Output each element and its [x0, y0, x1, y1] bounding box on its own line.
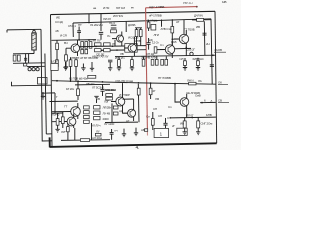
- transistor VT6: [123, 106, 136, 121]
- svg-text:СП: СП: [158, 114, 162, 118]
- second mid wire y84.6: [75, 83, 110, 86]
- stacked rect row 2b: [85, 49, 88, 53]
- resistor above bus: [88, 75, 96, 78]
- connector circle on wire: [190, 52, 193, 55]
- cap C15 leads: [102, 85, 104, 97]
- cap C4 lead down: [100, 34, 102, 40]
- svg-text:АЛ 4Ом: АЛ 4Ом: [92, 136, 102, 140]
- row resistor Rb: [69, 60, 72, 67]
- horizontal resistor bottom: [80, 139, 89, 142]
- resistor R23: [149, 88, 152, 95]
- inner IF box right edge: [210, 19, 213, 62]
- output stack winding 4: [84, 120, 90, 123]
- R8 bottom lead: [136, 37, 138, 46]
- ground left bottom: [55, 125, 59, 132]
- junction T3-T4: [172, 38, 174, 40]
- speaker line left: [12, 82, 52, 86]
- svg-text:ЛА: ЛА: [198, 79, 202, 83]
- contour box P1: [111, 30, 117, 33]
- red box cluster box: [151, 24, 156, 30]
- box inner small rect a: [23, 63, 26, 66]
- wire T8 emitter to bottom: [74, 128, 76, 140]
- svg-text:ЛУ 1200: ЛУ 1200: [104, 122, 115, 126]
- stacked rect row 2a: [81, 49, 84, 53]
- small box left border: [38, 78, 48, 85]
- output wire right: [170, 116, 216, 119]
- output stack winding 1: [84, 106, 90, 109]
- svg-text:2Н: 2Н: [206, 42, 209, 46]
- transformer box col2 lower: [104, 49, 111, 52]
- right long vertical wire: [203, 21, 206, 55]
- row resistor Rg: [151, 59, 154, 65]
- antenna input wire: [7, 28, 41, 31]
- ground C18: [163, 129, 167, 133]
- bus junction a: [77, 80, 79, 82]
- svg-text:С3 4Д: С3 4Д: [55, 20, 63, 24]
- svg-text:ЛН N: ЛН N: [187, 78, 193, 82]
- svg-text:ЛГ 5СЗ-Л: ЛГ 5СЗ-Л: [92, 85, 104, 89]
- svg-text:АПВ: АПВ: [135, 39, 141, 43]
- row cap c: [108, 60, 112, 66]
- svg-text:ЛГИ: ЛГИ: [154, 33, 159, 37]
- svg-text:ДЧЛ IN: ДЧЛ IN: [194, 14, 203, 18]
- input resistor Ra: [13, 55, 16, 61]
- svg-text:АГ: АГ: [126, 119, 130, 123]
- right margin text 2: [218, 81, 228, 85]
- svg-text:2Н ЛЦЦ: 2Н ЛЦЦ: [147, 18, 158, 22]
- resistor R5: [85, 42, 88, 49]
- junction dots W3b: [116, 49, 118, 51]
- svg-text:П1,4: П1,4: [109, 21, 115, 25]
- right small rect b: [113, 112, 118, 115]
- left exit wire mid: [42, 92, 55, 94]
- svg-text:АЛ ЛУч: АЛ ЛУч: [91, 124, 101, 128]
- lead Rb bus: [70, 66, 72, 81]
- trimmer row wire: [27, 65, 45, 67]
- main unit box border right: [215, 11, 217, 143]
- svg-text:4.: 4.: [136, 145, 140, 150]
- R23 leads: [150, 83, 152, 99]
- transistor VT4: [174, 30, 189, 47]
- small caps pair left: [106, 94, 113, 97]
- inner IF box top line: [73, 19, 211, 23]
- svg-text:ЛИ 2Л: ЛИ 2Л: [103, 17, 111, 21]
- svg-text:ИЕ: ИЕ: [56, 16, 60, 20]
- resistor R8: [135, 30, 138, 37]
- row resistor Rj: [165, 59, 168, 65]
- transistor VT2b: [124, 37, 137, 57]
- resistor R9: [139, 30, 142, 37]
- cap C18 leads: [165, 118, 167, 129]
- T6 collector wire: [133, 99, 135, 106]
- ground T1 emitter: [64, 61, 68, 70]
- lead Rc bus: [75, 66, 77, 81]
- svg-text:ЬТ 20х: ЬТ 20х: [66, 87, 75, 91]
- vt4 collector wire: [183, 20, 185, 35]
- contact rect row3: [94, 116, 100, 119]
- vertical from top border: [88, 14, 90, 23]
- R9 bottom lead: [140, 37, 142, 46]
- wire into VT5: [105, 89, 116, 91]
- horizontal resistor on right bus: [189, 82, 196, 85]
- wire component feed row: [115, 55, 216, 56]
- vertical wire x138: [137, 84, 140, 122]
- svg-text:ИЛ: ИЛ: [180, 57, 184, 61]
- svg-text:12 Ог: 12 Ог: [152, 41, 159, 45]
- wire y102 to T7 collector: [49, 100, 77, 102]
- wire T2 row lower: [96, 49, 146, 52]
- svg-text:ДО6Б: ДО6Б: [128, 23, 135, 27]
- cap C8: [147, 43, 151, 45]
- right small rect a: [113, 106, 118, 109]
- output stack winding 2: [84, 111, 90, 114]
- cap C18: [163, 123, 167, 125]
- vertical x55 down: [54, 93, 56, 113]
- svg-text:ОиВ: ОиВ: [195, 94, 201, 98]
- left small box on border: [51, 63, 58, 70]
- row resistor Ra: [56, 60, 59, 67]
- label box 1: [154, 128, 168, 137]
- small rect pair mid: [106, 97, 113, 100]
- shield box VT2b: [125, 44, 137, 53]
- svg-text:ЛУ 4В: ЛУ 4В: [103, 111, 111, 115]
- resistor R4: [81, 42, 84, 49]
- cap C2 plates: [24, 58, 27, 60]
- wire stack rail down: [91, 123, 93, 140]
- red box cluster lead: [148, 20, 150, 31]
- bottom comp a lead: [67, 124, 69, 141]
- svg-text:ГТ: ГТ: [64, 105, 67, 109]
- junction output wire: [191, 117, 193, 119]
- cap C3 leads: [78, 27, 80, 40]
- svg-text:ЛУ: ЛУ: [112, 42, 116, 46]
- row resistor Rf: [142, 59, 145, 66]
- second down wire: [45, 54, 46, 135]
- bus junction e: [56, 80, 58, 82]
- svg-text:АТ: АТ: [176, 20, 180, 24]
- trimmer circle c: [36, 68, 39, 71]
- row resistor Ri: [161, 59, 164, 65]
- svg-text:Сп: Сп: [168, 105, 172, 109]
- red line lower fade: [146, 130, 148, 136]
- junction T4 emitter: [186, 47, 188, 49]
- svg-text:ЫВ: ЫВ: [222, 0, 226, 4]
- svg-text:РБГ-1Н: РБГ-1Н: [183, 1, 192, 5]
- svg-text:ЛМ: ЛМ: [155, 97, 160, 101]
- wire lower mid: [105, 121, 138, 123]
- wire T2 collector up: [125, 21, 127, 32]
- power bus left: [52, 81, 140, 83]
- svg-text:ЬПВ: ЬПВ: [206, 113, 212, 117]
- ground Rk: [183, 65, 187, 70]
- wire top to T1 stage: [52, 39, 97, 42]
- svg-text:СВ: СВ: [218, 99, 222, 103]
- svg-text:СП: СП: [153, 107, 157, 111]
- resistor R6: [89, 42, 92, 49]
- svg-text:ЮТ 1М: ЮТ 1М: [116, 6, 125, 10]
- row ground a: [63, 62, 67, 70]
- svg-text:Си: Си: [146, 115, 150, 119]
- red highlight left line: [146, 8, 148, 130]
- R3a leads: [56, 40, 58, 57]
- junction near right edge: [212, 54, 214, 56]
- svg-text:С1В: С1В: [171, 40, 176, 44]
- transistor VT1: [66, 40, 80, 56]
- wire y113 left: [52, 112, 63, 114]
- svg-text:АВ ЛУ АЛ ЛУ: АВ ЛУ АЛ ЛУ: [92, 55, 109, 59]
- resistor R27: [61, 117, 64, 124]
- svg-text:ЛУГ: ЛУГ: [61, 130, 67, 134]
- vertical link C4: [100, 14, 102, 31]
- bus junction d: [150, 82, 152, 84]
- ferrite rod hatch: [32, 34, 36, 48]
- resistor Rk right: [183, 61, 186, 66]
- svg-text:ПТ: ПТ: [78, 23, 82, 27]
- output terminal wire: [200, 101, 216, 103]
- svg-text:НД Г-17ЛВВ: НД Г-17ЛВВ: [149, 5, 164, 9]
- svg-text:ЛУ: ЛУ: [96, 130, 100, 134]
- T1 emitter chain resistor: [65, 48, 67, 55]
- left corner down wire: [41, 29, 52, 141]
- svg-text:ЛЛ/2Вт: ЛЛ/2Вт: [103, 106, 112, 110]
- svg-text:1/С6Г: 1/С6Г: [51, 60, 59, 64]
- svg-text:СП 2Д: СП 2Д: [146, 52, 154, 56]
- resistor R14 top right: [171, 27, 174, 33]
- T1 emitter resistor: [65, 55, 68, 61]
- resistor R26: [56, 119, 59, 126]
- svg-text:ГТ П19Б: ГТ П19Б: [184, 28, 195, 32]
- wire T4 base link: [172, 39, 191, 49]
- wire VT9 down to out bus: [186, 110, 188, 117]
- cap C4 plates: [99, 32, 103, 34]
- svg-text:СВ: СВ: [96, 97, 100, 101]
- svg-text:С5 0,1: С5 0,1: [68, 24, 76, 28]
- transistor VT2: [112, 32, 124, 47]
- antenna input hook: [6, 30, 8, 33]
- row ground c: [108, 67, 112, 71]
- cap ground chain a: [122, 129, 126, 137]
- cap C3 upper: [77, 31, 81, 33]
- svg-text:ПГ /Т205В: ПГ /Т205В: [158, 76, 171, 80]
- svg-text:АТВ С1л: АТВ С1л: [161, 27, 172, 31]
- label box 2: [177, 128, 187, 135]
- T5 collector up wire: [122, 83, 124, 93]
- R20 leads: [77, 81, 79, 100]
- R27 leads: [62, 112, 64, 128]
- R31 lead: [197, 117, 199, 121]
- junction dots W2: [95, 46, 97, 48]
- transistor VT5: [111, 93, 125, 110]
- second down wire turn: [46, 133, 52, 135]
- R26 lead up: [57, 113, 59, 119]
- trimmer circle b: [32, 68, 35, 71]
- ferrite rod antenna L1: [32, 33, 36, 50]
- svg-text:И ПК: И ПК: [103, 6, 110, 10]
- transformer box col2 upper: [104, 43, 111, 46]
- wire T3 collector up: [171, 33, 173, 45]
- power bus right: [140, 83, 216, 84]
- svg-text:иР-17ЛВВ: иР-17ЛВВ: [149, 14, 162, 18]
- transistor VT8: [52, 114, 76, 128]
- inner box right lower: [211, 62, 213, 84]
- svg-text:ВЧ: ВЧ: [64, 41, 68, 45]
- row resistor Rc: [75, 60, 78, 67]
- T2 base vertical: [114, 40, 116, 46]
- svg-text:АТ ПУ: АТ ПУ: [93, 39, 101, 43]
- right margin text 3: [218, 99, 229, 103]
- ground row extra: [81, 64, 85, 71]
- svg-text:СП: СП: [167, 116, 171, 120]
- svg-text:АВ: АВ: [141, 128, 145, 132]
- ground R31: [196, 128, 200, 135]
- svg-text:2000: 2000: [103, 117, 109, 121]
- red box cluster resistor: [147, 22, 150, 28]
- wire R8 R9 top: [135, 28, 142, 30]
- transistor VT7: [52, 103, 80, 119]
- red line end tip: [196, 6, 198, 8]
- variable cap C2: [26, 54, 29, 64]
- svg-text:на: на: [93, 6, 96, 10]
- svg-text:ОХ: ОХ: [218, 81, 222, 85]
- component x153: [151, 119, 154, 126]
- resistor R31: [197, 121, 200, 128]
- cluster top wire: [13, 53, 34, 55]
- small rect right of red: [144, 129, 147, 132]
- junction dots W2b: [112, 45, 114, 47]
- bus junction c: [138, 82, 140, 84]
- row ground b: [90, 62, 94, 71]
- cap ground chain b: [134, 128, 138, 136]
- trimmer stubs: [30, 67, 38, 68]
- IF transformer box: [95, 43, 102, 46]
- wire T2 row upper: [96, 45, 146, 48]
- antenna coupling circle: [33, 30, 36, 33]
- resistor R30: [183, 121, 186, 128]
- scan paper noise: [0, 0, 241, 150]
- wire T3 base link: [157, 49, 166, 51]
- junction output terminal: [201, 102, 203, 104]
- ground Rl: [196, 65, 200, 70]
- trimmer circle a: [28, 68, 31, 71]
- svg-text:лВ: лВ: [55, 29, 59, 33]
- junction W1: [78, 39, 80, 41]
- svg-text:ИЛ ПСЧ: ИЛ ПСЧ: [113, 14, 123, 18]
- bottom cap c: [110, 129, 114, 140]
- bus junction f: [70, 80, 72, 82]
- stack ground top: [94, 96, 98, 103]
- comp leads x153: [152, 112, 154, 130]
- output stack winding 3: [84, 115, 90, 118]
- svg-text:ИВ: ИВ: [196, 25, 200, 29]
- row resistor Re: [131, 60, 134, 67]
- bottom comp a: [67, 127, 70, 132]
- resistor R22: [137, 88, 140, 95]
- svg-text:ИЛч Ил: ИЛч Ил: [115, 56, 125, 60]
- ground R30: [183, 128, 187, 135]
- T9 base feed vertical: [175, 84, 180, 102]
- bus junction b: [102, 81, 104, 83]
- cap right inner: [210, 65, 214, 67]
- row resistor Rh: [155, 59, 158, 65]
- main unit box border left: [51, 15, 53, 147]
- svg-text:И СЯ: И СЯ: [60, 34, 67, 38]
- svg-text:т/ЛА ЛМ Umsв: т/ЛА ЛМ Umsв: [115, 79, 133, 83]
- fuse box top right: [197, 18, 204, 21]
- rod top lead: [33, 28, 35, 31]
- main unit box border top: [51, 11, 216, 14]
- junction dot T1 top: [88, 39, 90, 41]
- svg-text:АД: АД: [119, 109, 123, 113]
- cap C15: [100, 89, 104, 91]
- svg-text:ПЛ 0Г: ПЛ 0Г: [186, 113, 194, 117]
- row ground e: [130, 66, 134, 70]
- contour cap C6: [111, 25, 117, 28]
- rod bottom lead: [33, 50, 35, 54]
- R30 lead: [184, 118, 186, 121]
- T5 emitter to T6 base: [123, 110, 128, 113]
- transistor VT3: [160, 41, 175, 58]
- right margin text 1: [214, 48, 226, 52]
- junction T9 base bus: [174, 83, 176, 85]
- main unit box border bottom (thick): [50, 143, 217, 147]
- ground left section: [41, 92, 45, 99]
- row resistor Rd: [118, 60, 121, 67]
- resistor R20: [77, 89, 80, 96]
- wire W2 extension: [79, 45, 96, 47]
- svg-text:И ГТЗ0Р: И ГТЗ0Р: [119, 93, 130, 97]
- resistor leads row: [57, 56, 198, 60]
- red box cluster wire: [161, 20, 163, 27]
- wire T4 emitter down: [185, 47, 187, 56]
- svg-text:ИВ: ИВ: [180, 122, 184, 126]
- stack side rail: [111, 103, 113, 122]
- bottom wire with resistor: [61, 139, 110, 142]
- transistor VT9: [175, 94, 189, 110]
- contact rect row2: [94, 111, 100, 114]
- contact rect row1: [94, 106, 100, 109]
- fuse leads: [192, 19, 211, 21]
- bottom sub-box left edge thick: [49, 137, 51, 147]
- junction dots W3: [101, 50, 103, 52]
- resistor R12: [154, 47, 157, 53]
- svg-text:ЛВ: ЛВ: [120, 52, 124, 56]
- resistor R3a vertical: [56, 43, 59, 49]
- cap C8 leads: [148, 38, 150, 50]
- inner IF box left stub: [72, 23, 74, 37]
- cluster bottom wire: [13, 62, 45, 65]
- right cap small: [203, 33, 207, 35]
- svg-text:СИГ 2Ом: СИГ 2Ом: [201, 122, 213, 126]
- svg-text:61 ПЗВ ЬВ 42в: 61 ПЗВ ЬВ 42в: [69, 77, 88, 81]
- red highlight top line: [146, 7, 198, 8]
- mid horizontal wire y99: [123, 98, 134, 100]
- svg-text:4 ЬОВ: 4 ЬОВ: [214, 48, 222, 52]
- IF transformer box 2: [95, 49, 102, 52]
- R14 lead to box top: [171, 19, 173, 26]
- resistor Rl right: [196, 61, 199, 66]
- row ground d: [117, 66, 121, 70]
- input resistor Rb: [17, 55, 20, 61]
- bottom comp b: [95, 133, 101, 136]
